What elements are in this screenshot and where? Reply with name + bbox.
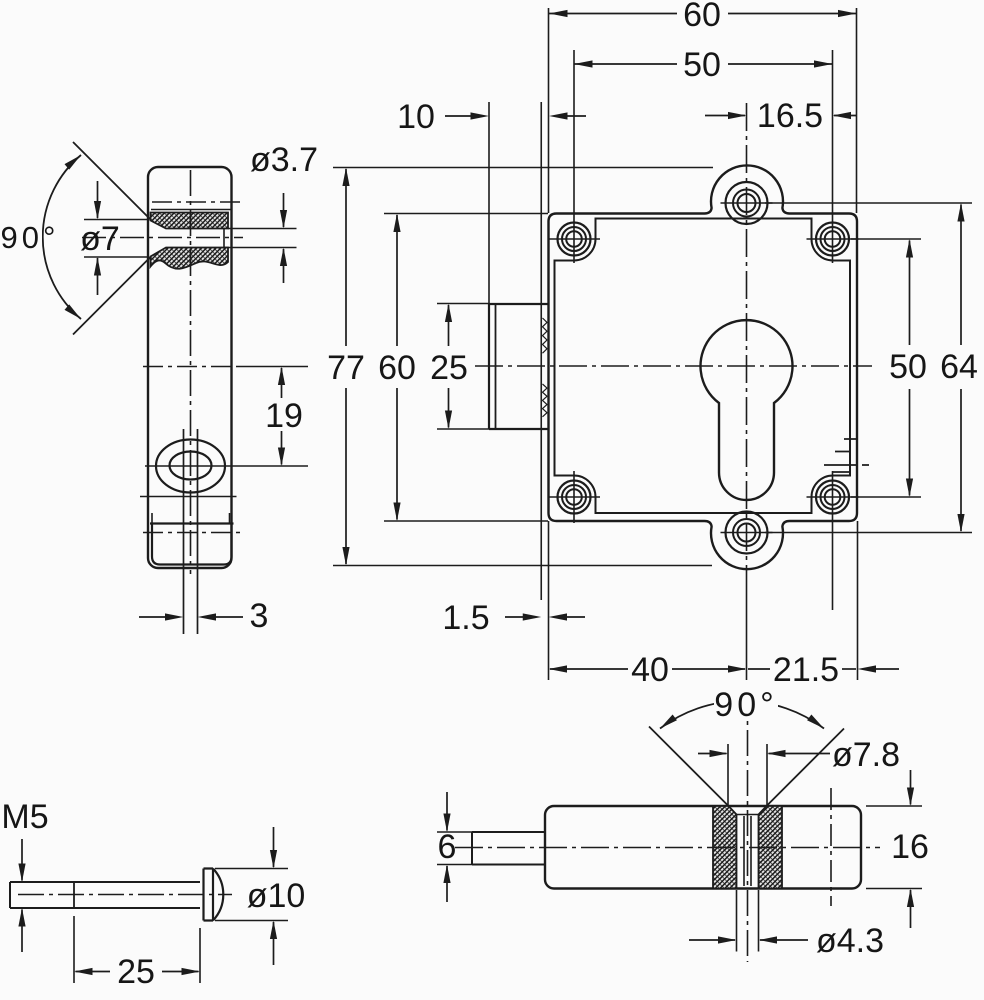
dim dia10 extensions [215,868,288,870]
thread run-out line [73,882,75,908]
side plate outline [150,167,234,169]
oval hole outer [156,440,225,493]
vertical centre line of side plate [190,170,192,574]
screw centre line [18,894,232,896]
svg-text:16: 16 [891,828,929,866]
side view bottom lines [140,496,237,498]
dia7.8 arrows [698,753,727,755]
countersink bottom edge across bore [737,814,759,816]
countersink cone lines [649,727,729,807]
cylinder body [545,806,861,889]
inner top line [151,209,232,211]
90 deg arc [660,701,824,729]
vertical centre line [746,103,748,588]
dim 60 top [549,13,677,15]
screw head [204,869,224,921]
cam centre line vertical [830,788,832,906]
svg-text:60: 60 [683,0,721,34]
hole section left bar (hatched) [713,806,737,889]
svg-text:16.5: 16.5 [757,97,823,135]
bolt edge extension up [488,102,490,304]
dim 10 [445,115,473,117]
screw shank [10,882,200,908]
svg-text:1.5: 1.5 [442,599,489,637]
countersink cone line upper [73,142,151,220]
horizontal centre line [475,365,872,367]
counterbore step at right face [223,229,225,248]
inner contour with corner notches [555,219,851,514]
label 90deg [714,690,778,719]
bottom tab inner outline [152,524,232,565]
corner screw top-right [807,223,859,256]
corner screw top-left [548,223,600,256]
svg-text:3: 3 [250,597,269,635]
dim M5 arrows [21,839,23,881]
dia7 extension lines [84,219,148,221]
svg-text:64: 64 [940,348,978,386]
svg-text:ø4.3: ø4.3 [816,922,884,960]
dim 25 extensions [73,916,75,983]
svg-text:ø7.8: ø7.8 [832,736,900,774]
svg-text:90°: 90° [714,686,777,724]
dim 21.5 [748,668,770,670]
case centre axis in side view [143,366,240,368]
svg-text:ø10: ø10 [247,877,306,915]
svg-text:ø3.7: ø3.7 [250,141,318,179]
dim 25 left [437,303,489,305]
centre line extension below tab [746,588,748,680]
dim 16 extensions [866,805,922,807]
tab screw bottom [721,512,773,554]
dim 3 [139,616,167,618]
svg-text:ø7: ø7 [80,220,120,258]
dim dia10 arrows [273,827,275,867]
case right edge extensions [856,8,858,213]
dim 25 line [76,971,111,973]
lock case outline with fixing tabs [549,165,858,569]
svg-text:19: 19 [265,397,303,435]
dim 16 arrows [910,770,912,805]
svg-text:25: 25 [430,349,468,387]
svg-text:21.5: 21.5 [773,651,839,689]
dim 40 [550,668,628,670]
dim 77 [333,167,713,169]
dim 60 left [384,213,548,215]
dim 1.5 [505,616,525,618]
svg-text:6: 6 [438,828,457,866]
bottom tab screw axis [143,532,240,534]
svg-text:60: 60 [378,349,416,387]
case left edge extensions [548,8,550,213]
hatched section upper [151,213,229,229]
step detail near bottom-right [824,428,869,473]
dim 50 top [574,63,677,65]
dia3.7 arrows [283,193,285,227]
hatched section lower (with break wave) [151,248,229,269]
slot lines (3mm) [183,429,185,634]
svg-text:90°: 90° [1,220,60,255]
dia4.3 arrows [689,939,735,941]
dim 64 right [765,202,972,204]
dia4.3 extensions [736,890,738,952]
svg-text:50: 50 [889,348,927,386]
tab screw axis (top) [152,201,243,203]
oval hole inner [170,452,212,480]
svg-text:50: 50 [683,46,721,84]
corner screw bottom-right [807,481,859,514]
corner screw bottom-left [548,471,600,523]
svg-text:40: 40 [631,651,669,689]
dim 19 [281,368,283,398]
oval crosshair [145,465,308,467]
svg-text:M5: M5 [1,798,48,836]
body centre line horizontal [455,847,880,849]
90 deg arc [43,155,81,319]
dim 16.5 [705,115,745,117]
euro cylinder hole [701,320,793,500]
bolt break hatch marks [543,318,548,417]
dia7.8 extension lines [727,744,729,806]
svg-text:77: 77 [327,349,365,387]
screw column extensions [573,50,575,263]
dim 6 arrows [446,792,448,831]
bore centre line [82,237,243,239]
dia7 arrows [97,181,99,218]
hole section right bar (hatched) [759,806,783,889]
hole centre line vertical [747,690,749,962]
label 90deg [2,223,42,251]
bore extension lines (for dia 3.7) [228,228,297,230]
bolt (left protrusion) [489,304,549,429]
dim 6 extensions [437,831,472,833]
tab screw top [721,182,773,224]
spindle stem [472,832,545,865]
dim 50 right [851,238,921,240]
svg-text:10: 10 [397,98,435,136]
svg-text:25: 25 [117,953,155,991]
countersink cone line lower [73,257,151,335]
thread lines [743,816,745,886]
faceplate hidden edge line [540,102,542,600]
